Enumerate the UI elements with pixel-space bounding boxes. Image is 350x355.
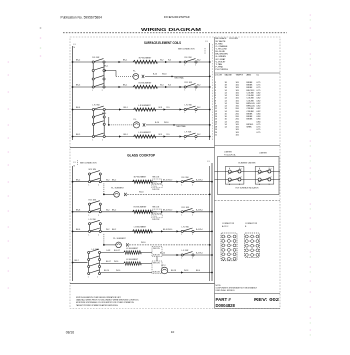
svg-text:BK/BK: BK/BK — [247, 87, 254, 89]
svg-text:BK-17: BK-17 — [106, 261, 111, 263]
svg-text:L1: L1 — [74, 162, 76, 164]
svg-text:P.L. ELEMENT: P.L. ELEMENT — [113, 238, 126, 240]
svg-text:FFES3015PSF: FFES3015PSF — [164, 15, 190, 19]
svg-text:BK-8: BK-8 — [76, 209, 80, 211]
svg-text:R-5: R-5 — [167, 134, 170, 136]
svg-text:BK- BLACK: BK- BLACK — [216, 37, 227, 40]
svg-text:B: B — [269, 184, 270, 186]
svg-text:10: 10 — [171, 330, 175, 334]
svg-text:PART #: PART # — [216, 297, 232, 302]
svg-text:SUR.CON: SUR.CON — [153, 272, 160, 274]
svg-text:W-10: W-10 — [141, 242, 145, 244]
svg-text:C.L.S.: C.L.S. — [153, 186, 158, 188]
svg-text:SURFACE-ELEMENT COILS: SURFACE-ELEMENT COILS — [144, 41, 181, 45]
svg-text:GAUGE: GAUGE — [225, 74, 233, 77]
svg-text:GLASS COOKTOP: GLASS COOKTOP — [127, 154, 156, 158]
svg-text:O- ORANGE: O- ORANGE — [216, 45, 229, 48]
svg-text:2: 2 — [98, 185, 99, 187]
svg-text:W.F. SW.: W.F. SW. — [89, 169, 97, 171]
svg-text:T- TAN: T- TAN — [216, 63, 223, 66]
svg-text:BK-10 W-10: BK-10 W-10 — [163, 179, 172, 181]
svg-text:L1: L1 — [74, 44, 76, 46]
svg-text:BK-1: BK-1 — [123, 85, 127, 87]
svg-text:BK/BK: BK/BK — [247, 113, 254, 115]
svg-text:W-10: W-10 — [164, 122, 168, 124]
svg-text:WIRING DIAGRAM: WIRING DIAGRAM — [141, 27, 201, 33]
svg-text:B: B — [269, 168, 270, 170]
svg-text:R-5: R-5 — [168, 85, 171, 87]
svg-text:SUR.CON: SUR.CON — [152, 189, 159, 191]
svg-text:PU- PURPLE: PU- PURPLE — [216, 69, 229, 71]
svg-text:D0004828: D0004828 — [216, 303, 236, 308]
svg-text:COLOR: COLOR — [215, 75, 223, 77]
svg-text:B-4 W-4: B-4 W-4 — [196, 253, 203, 255]
svg-text:BK-2: BK-2 — [76, 179, 80, 181]
svg-text:CON: CON — [153, 182, 156, 184]
svg-text:ELEMENT LIMITER: ELEMENT LIMITER — [239, 162, 257, 164]
svg-text:BK-16: BK-16 — [104, 270, 109, 272]
svg-text:P.L.: P.L. — [133, 71, 137, 73]
svg-text:MOISTURE SYSTEM AND COLOR IDEN: MOISTURE SYSTEM AND COLOR IDENTIFY FOR O… — [76, 301, 135, 304]
svg-text:L1: L1 — [206, 41, 208, 43]
svg-text:W-2: W-2 — [106, 179, 109, 181]
svg-text:BK-18: BK-18 — [171, 270, 176, 272]
svg-text:O-N2: O-N2 — [106, 250, 110, 252]
svg-text:L.R ELEMENT: L.R ELEMENT — [138, 105, 151, 107]
svg-text:C.L.S.: C.L.S. — [153, 216, 158, 218]
svg-text:Publication No. 5995675864: Publication No. 5995675864 — [61, 16, 103, 20]
svg-text:SUR.CON: SUR.CON — [153, 255, 160, 257]
svg-text:2: 2 — [98, 234, 99, 236]
svg-text:B: B — [239, 168, 240, 170]
svg-text:P.L.: P.L. — [134, 119, 138, 121]
svg-text:BK-4: BK-4 — [76, 107, 80, 109]
svg-text:L1: L1 — [208, 161, 210, 163]
svg-text:L.R. SW.: L.R. SW. — [182, 227, 190, 229]
svg-text:F.O.A. A.P.O.A.: F.O.A. A.P.O.A. — [224, 153, 236, 156]
svg-text:R.R. SW.: R.R. SW. — [182, 207, 190, 209]
svg-text:AWG: AWG — [247, 74, 252, 77]
svg-text:P.L. ELEMENT: P.L. ELEMENT — [111, 188, 124, 190]
svg-text:CONNECTOR: CONNECTOR — [222, 223, 235, 225]
svg-text:BK-10: BK-10 — [160, 253, 165, 255]
svg-text:CONNECTOR: CONNECTOR — [245, 223, 258, 225]
svg-text:L.F ELEMENT: L.F ELEMENT — [138, 132, 151, 134]
svg-text:USED IN ALL MODELS.: USED IN ALL MODELS. — [216, 289, 236, 292]
svg-text:R.R ELEMENT: R.R ELEMENT — [139, 82, 153, 84]
svg-text:B-10: B-10 — [153, 74, 157, 76]
svg-text:BK-6: BK-6 — [102, 113, 106, 115]
svg-text:W-10: W-10 — [139, 192, 143, 194]
svg-text:BK-1: BK-1 — [104, 66, 108, 68]
svg-text:LIMITER: LIMITER — [259, 152, 267, 154]
svg-text:BK-6: BK-6 — [76, 229, 80, 231]
svg-text:R.R. SW.: R.R. SW. — [89, 199, 97, 201]
svg-text:HOT SURFACE INDICATOR: HOT SURFACE INDICATOR — [236, 187, 260, 190]
svg-text:BK-7: BK-7 — [75, 260, 79, 262]
svg-text:B-10: B-10 — [155, 122, 159, 124]
svg-text:CABLE ALL WIRES PRIOR TO DISCO: CABLE ALL WIRES PRIOR TO DISCONNECT WHEN… — [76, 299, 139, 302]
svg-text:A OR C: A OR C — [222, 225, 229, 228]
svg-text:SEE CONNECTOR: SEE CONNECTOR — [178, 49, 195, 51]
svg-text:TER.CON: TER.CON — [152, 176, 160, 178]
svg-text:W-2: W-2 — [106, 229, 109, 231]
svg-text:SUR.CON: SUR.CON — [152, 219, 159, 221]
svg-text:W-16: W-16 — [116, 270, 120, 272]
svg-text:B: B — [239, 184, 240, 186]
svg-text:SEE CONNECTOR: SEE CONNECTOR — [80, 162, 97, 164]
svg-text:BK-2: BK-2 — [112, 179, 116, 181]
svg-text:W-4: W-4 — [160, 85, 163, 87]
svg-text:W-2: W-2 — [197, 60, 200, 62]
svg-text:BK-1: BK-1 — [124, 134, 128, 136]
svg-text:R.F ELEMENT: R.F ELEMENT — [139, 57, 152, 59]
svg-text:W-9: W-9 — [159, 134, 162, 136]
svg-text:L.F ELEMENT: L.F ELEMENT — [126, 248, 139, 250]
svg-text:W-2: W-2 — [160, 60, 163, 62]
svg-text:R.F. SW.: R.F. SW. — [92, 57, 100, 59]
svg-text:A.T.C.: A.T.C. — [162, 264, 167, 267]
svg-text:BK-3: BK-3 — [76, 85, 80, 87]
svg-text:BK-1: BK-1 — [124, 107, 128, 109]
svg-text:BK-2: BK-2 — [112, 229, 116, 231]
svg-text:W-16: W-16 — [114, 261, 118, 263]
svg-text:NEUTRAL: NEUTRAL — [177, 125, 187, 128]
svg-text:W-10: W-10 — [162, 74, 166, 76]
svg-text:L.F ELEMENT: L.F ELEMENT — [126, 259, 139, 261]
svg-text:W-2: W-2 — [106, 209, 109, 211]
svg-text:B-4 W-4: B-4 W-4 — [196, 229, 203, 231]
svg-text:BK-4: BK-4 — [196, 270, 200, 272]
svg-text:2: 2 — [102, 90, 103, 92]
svg-text:COL/BK: COL/BK — [247, 100, 255, 102]
svg-text:TEMP R: TEMP R — [236, 75, 244, 77]
svg-text:REV: 002: REV: 002 — [254, 297, 280, 302]
svg-text:R-5: R-5 — [168, 60, 171, 62]
svg-text:R.F. SW.: R.F. SW. — [182, 177, 190, 179]
svg-text:BK/BK: BK/BK — [247, 119, 254, 121]
svg-text:W/BK: W/BK — [247, 127, 253, 129]
svg-text:BK-1: BK-1 — [123, 60, 127, 62]
svg-text:2: 2 — [98, 215, 99, 217]
svg-text:SWITCH ELEMENTS OVER DESIGN OP: SWITCH ELEMENTS OVER DESIGN OPERATION UN… — [76, 296, 122, 299]
svg-text:BK-10 W-10: BK-10 W-10 — [163, 229, 172, 231]
svg-text:TARGET PROPER OPERATION AFTER: TARGET PROPER OPERATION AFTER SERVICING. — [76, 304, 119, 307]
svg-text:L.F. SW.: L.F. SW. — [185, 132, 193, 134]
svg-text:COLORS: COLORS — [229, 38, 238, 40]
svg-text:R.F. SW.: R.F. SW. — [185, 57, 193, 59]
svg-text:W-18: W-18 — [184, 270, 188, 272]
svg-text:L.R ELEMENT: L.R ELEMENT — [134, 226, 147, 228]
svg-text:B.F ELEMENT: B.F ELEMENT — [134, 177, 147, 179]
svg-text:R.R ELEMENT: R.R ELEMENT — [134, 207, 148, 209]
svg-text:W-2: W-2 — [197, 107, 200, 109]
svg-text:W-2: W-2 — [197, 134, 200, 136]
svg-text:W-2: W-2 — [197, 85, 200, 87]
svg-text:W-8: W-8 — [159, 107, 162, 109]
svg-text:BK-2: BK-2 — [112, 209, 116, 211]
svg-text:R-5: R-5 — [167, 107, 170, 109]
svg-text:CON: CON — [153, 212, 156, 214]
svg-text:08/16: 08/16 — [66, 331, 74, 335]
svg-text:BK-2: BK-2 — [76, 60, 80, 62]
svg-text:B-4 W-4: B-4 W-4 — [196, 179, 203, 181]
svg-text:BK-5: BK-5 — [76, 134, 80, 136]
svg-text:TER.CON: TER.CON — [153, 248, 160, 250]
svg-text:B-4 W-4: B-4 W-4 — [196, 209, 203, 211]
svg-text:BK-10 W-10: BK-10 W-10 — [163, 209, 172, 211]
svg-text:L.R. SW.: L.R. SW. — [89, 219, 97, 221]
svg-text:LIMITER: LIMITER — [224, 151, 232, 153]
svg-text:TER.CON: TER.CON — [152, 206, 160, 208]
svg-text:L.F. SW.: L.F. SW. — [182, 250, 190, 252]
svg-text:R.R. SW.: R.R. SW. — [185, 82, 193, 84]
svg-text:NEUTRAL: NEUTRAL — [175, 77, 185, 80]
svg-text:2: 2 — [97, 277, 98, 279]
svg-text:L.R. SW.: L.R. SW. — [92, 105, 100, 107]
svg-text:L.R. SW.: L.R. SW. — [185, 105, 193, 107]
svg-text:TER.CON: TER.CON — [153, 262, 160, 264]
svg-text:BLK-17: BLK-17 — [114, 250, 120, 252]
